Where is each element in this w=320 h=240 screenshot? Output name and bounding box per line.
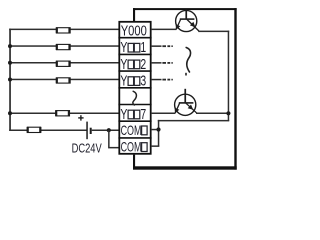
transistor Q1 (176, 10, 199, 32)
svg-text:7: 7 (140, 106, 146, 122)
svg-text:Y: Y (120, 56, 127, 72)
junction node on bus at Y003 (8, 78, 12, 82)
wire right rail vertical (228, 31, 230, 122)
load L3 (56, 61, 71, 67)
terminal separator 4 (118, 87, 151, 89)
dash above transistor Q2 base (185, 73, 187, 76)
terminal separator 3 (118, 70, 151, 72)
label Y##1 (120, 40, 146, 56)
battery DC24V (86, 122, 91, 140)
load L6 (27, 127, 42, 133)
terminal separator 6 (118, 120, 151, 122)
load L5 (55, 110, 70, 116)
label Y##7 (120, 106, 146, 122)
wire COM bracket vertical (158, 120, 160, 146)
terminal strip outline (119, 22, 150, 154)
left supply bus (9, 29, 11, 131)
load L2 (56, 44, 71, 50)
svg-text:Y: Y (120, 73, 127, 89)
wire Y007 to transistor Q2 (152, 113, 176, 115)
junction node on bus at Y001 (8, 44, 12, 48)
wire Y007 branch (9, 113, 119, 115)
wire right rail to COM bracket (158, 120, 229, 122)
svg-text:3: 3 (140, 73, 146, 89)
svg-text:COM: COM (121, 122, 142, 139)
break squiggle in terminal strip (133, 91, 137, 105)
svg-text:2: 2 (140, 56, 146, 72)
svg-text:COM: COM (121, 138, 142, 155)
wire Y000 to transistor Q1 (152, 29, 177, 31)
load L1 (56, 27, 71, 33)
wire Y002 branch (9, 62, 119, 64)
terminal separator 5 (118, 104, 151, 106)
terminal separator 2 (118, 53, 151, 55)
wire battery/COM branch (9, 130, 86, 132)
label COM2 (121, 138, 148, 155)
plus polarity mark (78, 115, 83, 120)
enclosure top-left drop to terminal strip (133, 8, 135, 22)
label Y##2 (120, 56, 146, 72)
wire into COM2 terminal (108, 147, 118, 149)
terminal separator 1 (118, 37, 151, 39)
label COM1 (121, 122, 148, 139)
label Y##3 (120, 73, 146, 89)
svg-text:DC24V: DC24V (72, 142, 103, 156)
enclosure right edge (234, 8, 236, 170)
terminal separator 7 (118, 137, 151, 139)
enclosure top rail (133, 8, 237, 10)
wire Q2 emitter to right rail (196, 113, 229, 115)
junction node battery/COM (107, 128, 111, 132)
break squiggle between transistors (186, 48, 190, 73)
wire battery to COM1 terminal (92, 130, 119, 132)
wire Y003 branch (9, 79, 119, 81)
load L4 (56, 78, 71, 84)
enclosure bottom edge (133, 166, 237, 169)
wire Y001 branch (9, 45, 119, 47)
wire Y003 dashed stub (152, 79, 173, 81)
svg-text:1: 1 (140, 40, 146, 56)
junction node COM bracket (156, 127, 160, 131)
wire bracket into COM2 (152, 145, 160, 147)
svg-text:Y: Y (120, 40, 127, 56)
svg-text:Y: Y (120, 106, 127, 122)
enclosure bottom-left riser (133, 155, 135, 168)
transistor Q2 (175, 89, 197, 116)
wire Y002 dashed stub (152, 62, 173, 64)
wire Q1 emitter to right rail (198, 31, 229, 32)
junction node right rail / Q2 (226, 111, 230, 115)
svg-text:Y000: Y000 (121, 22, 147, 39)
wire COM1 to bracket (152, 129, 160, 131)
wire Y001 dashed stub (152, 45, 173, 47)
wire drop to COM2 terminal (108, 130, 110, 147)
wire Y000 branch (9, 29, 119, 31)
junction node on bus at Y002 (8, 61, 12, 65)
junction node on bus at Y007 (8, 111, 12, 115)
